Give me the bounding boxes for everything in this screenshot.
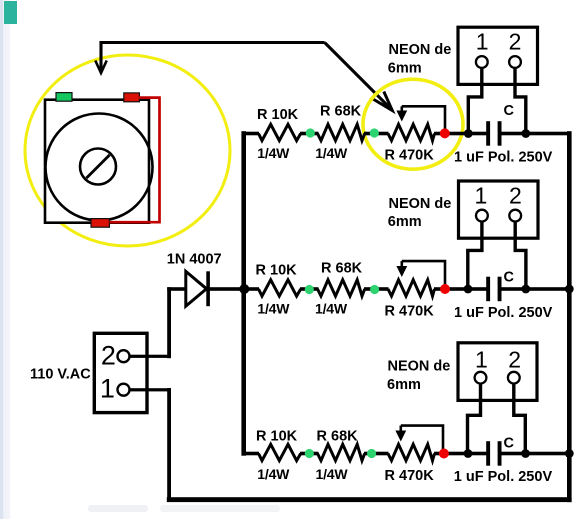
wire R2-pot row1 [364, 132, 389, 136]
svg-text:1N 4007: 1N 4007 [167, 252, 222, 268]
left vertical bus wire [241, 131, 246, 456]
resistor R 10K row1 [259, 124, 301, 140]
110 V.AC terminal block [94, 333, 147, 412]
svg-text:1: 1 [475, 347, 488, 373]
trimmer wiper arrowhead row1 [396, 111, 407, 122]
diode D1 cathode bar [206, 271, 210, 306]
left edge scan artifact stripes [0, 0, 3, 519]
neon pin2 wire row1 [515, 68, 526, 134]
wire R2-pot row2 [364, 287, 389, 291]
red node dot row1 [440, 128, 450, 138]
callout arrow to circled trimmer R 470K [325, 43, 393, 111]
green terminal pad [56, 93, 72, 102]
svg-text:1/4W: 1/4W [257, 145, 290, 161]
neon pin2 wire row3 [514, 384, 526, 454]
svg-text:110 V.AC: 110 V.AC [30, 366, 91, 382]
yellow highlight circle around potentiometer drawing [25, 55, 230, 246]
solder dot green a row2 [305, 285, 314, 294]
block pin circle 1 row2 [476, 210, 488, 222]
svg-text:1/4W: 1/4W [316, 466, 349, 482]
svg-text:C: C [504, 103, 515, 119]
trimmer R 470K row3 zigzag [388, 444, 435, 460]
svg-text:R 10K: R 10K [256, 263, 298, 279]
red node dot row2 [440, 284, 450, 294]
wire terminal 2 to elbow [124, 355, 171, 358]
solder dot green a row1 [306, 128, 315, 137]
junction dot right of cap row2 [521, 285, 530, 294]
svg-text:1/4W: 1/4W [257, 301, 290, 317]
potentiometer body outline [45, 100, 149, 223]
svg-text:2: 2 [509, 182, 522, 208]
svg-text:NEON de: NEON de [388, 358, 451, 374]
wire R1-R2 row1 [300, 132, 319, 136]
callout arrow to potentiometer drawing [95, 43, 324, 74]
trimmer wiper arrowhead row2 [396, 266, 407, 277]
diode D1 triangle [186, 271, 207, 306]
potentiometer screw slot circle [80, 149, 116, 185]
trimmer R 470K row2 zigzag [388, 280, 435, 296]
svg-text:R 470K: R 470K [385, 303, 435, 319]
AC wire from terminal 2 up to diode [167, 287, 171, 358]
wire pot to cap row3 [434, 452, 487, 456]
block pin circle 2 row1 [509, 56, 521, 68]
block pin circle 2 row2 [509, 210, 521, 222]
svg-text:1 uF Pol. 250V: 1 uF Pol. 250V [454, 305, 553, 321]
svg-text:1/4W: 1/4W [315, 145, 348, 161]
pin 1 circle [118, 384, 130, 396]
svg-text:1 uF Pol. 250V: 1 uF Pol. 250V [454, 149, 553, 165]
capacitor C row1 plate right [498, 121, 502, 146]
trimmer R 470K row1 zigzag [388, 124, 435, 140]
yellow highlight circle around trimmer row 1 [363, 79, 463, 169]
svg-text:1/4W: 1/4W [257, 466, 290, 482]
svg-text:R 10K: R 10K [257, 107, 299, 123]
red terminal pad top-right [124, 93, 140, 102]
svg-text:C: C [504, 436, 515, 452]
block pin circle 1 row3 [475, 372, 487, 384]
solder dot green b row1 [370, 128, 379, 137]
AC live wire from terminal 1 down to bottom bus [167, 388, 171, 502]
svg-text:NEON de: NEON de [389, 42, 452, 58]
junction dot right bus row2 [565, 285, 574, 294]
junction dot right of cap row3 [521, 449, 530, 458]
svg-text:6mm: 6mm [387, 377, 421, 393]
svg-text:6mm: 6mm [388, 60, 422, 76]
svg-text:1: 1 [475, 182, 488, 208]
solder dot green b row3 [367, 449, 376, 458]
block pin circle 2 row3 [508, 372, 520, 384]
svg-text:1/4W: 1/4W [315, 301, 348, 317]
neon terminal block row3 [458, 343, 537, 401]
right vertical bus wire [567, 131, 572, 502]
svg-text:6mm: 6mm [388, 214, 422, 230]
junction dot right bus row3 [565, 449, 574, 458]
wire diode to bus node [208, 287, 244, 291]
junction dot left of cap row2 [464, 285, 473, 294]
wire cap to right bus row3 [501, 452, 569, 456]
svg-text:R 10K: R 10K [256, 428, 298, 444]
neon pin2 wire row2 [515, 222, 526, 290]
svg-text:R 68K: R 68K [320, 104, 362, 120]
wire R1-R2 row3 [300, 452, 319, 456]
wire R2-pot row3 [364, 452, 389, 456]
red jumper wire on potentiometer [110, 98, 160, 223]
wire bus to R1 row3 [244, 452, 259, 456]
trimmer wiper arrowhead row3 [395, 431, 406, 442]
wire into diode anode [167, 287, 186, 291]
teal artifact box top-left [4, 1, 17, 24]
faint scan smudges bottom-left [88, 505, 148, 512]
neon pin1 wire row1 [468, 68, 482, 134]
capacitor C row3 plate left [486, 441, 490, 466]
svg-text:1 uF Pol. 250V: 1 uF Pol. 250V [454, 469, 553, 485]
svg-text:NEON de: NEON de [389, 196, 452, 212]
junction dot left of cap row3 [464, 449, 473, 458]
trimmer wiper arm row2 [402, 261, 445, 285]
block pin circle 1 row1 [476, 56, 488, 68]
trimmer wiper arm row3 [401, 426, 443, 450]
capacitor C row2 plate right [498, 277, 502, 302]
svg-text:R 470K: R 470K [385, 147, 435, 163]
svg-text:2: 2 [101, 340, 116, 370]
svg-text:R 68K: R 68K [321, 261, 363, 277]
resistor R 68K row1 [318, 124, 365, 140]
junction node at diode output [239, 284, 249, 294]
svg-text:C: C [504, 270, 515, 286]
wire pot to cap row2 [434, 287, 487, 291]
capacitor C row3 plate right [498, 441, 502, 466]
wire bus to R1 row2 [244, 287, 259, 291]
svg-text:1: 1 [100, 374, 115, 404]
solder dot green a row3 [305, 449, 314, 458]
wire R1-R2 row2 [300, 287, 319, 291]
capacitor C row2 plate left [486, 277, 490, 302]
resistor R 68K row2 [318, 280, 365, 296]
svg-text:R 68K: R 68K [317, 428, 359, 444]
neon pin1 wire row3 [468, 384, 481, 454]
neon pin1 wire row2 [468, 222, 482, 290]
trimmer wiper arm row1 [402, 106, 445, 130]
red node dot row3 [439, 449, 449, 459]
red terminal pad bottom [91, 219, 109, 228]
capacitor C row1 plate left [486, 121, 490, 146]
wire bus to R1 [244, 132, 259, 136]
resistor R 10K row2 [259, 280, 301, 296]
pin 2 circle [118, 350, 130, 362]
neon terminal block row2 [459, 181, 539, 238]
wire cap to right bus row2 [501, 287, 569, 291]
wire terminal 1 to elbow [124, 388, 171, 391]
junction dot right of cap row1 [521, 129, 530, 138]
svg-text:R 470K: R 470K [385, 468, 435, 484]
resistor R 10K row3 [259, 444, 301, 460]
wire pot to cap row1 [434, 132, 487, 136]
svg-text:1: 1 [476, 29, 489, 55]
neon terminal block row1 [458, 27, 538, 84]
junction dot left of cap row1 [464, 129, 473, 138]
svg-text:2: 2 [509, 29, 522, 55]
bottom bus wire [167, 497, 572, 502]
svg-text:2: 2 [508, 347, 521, 373]
wire cap to right bus row1 [501, 132, 569, 136]
solder dot green b row2 [370, 285, 379, 294]
resistor R 68K row3 [318, 444, 365, 460]
potentiometer rotor circle [46, 114, 153, 221]
